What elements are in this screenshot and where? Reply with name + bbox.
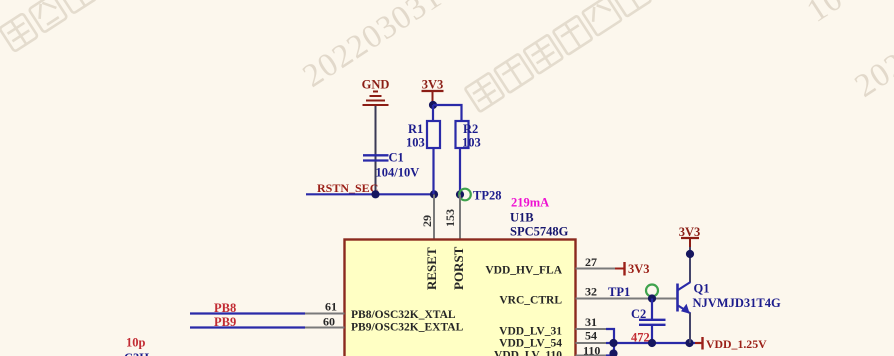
ground (363, 92, 389, 106)
svg-text:3V3: 3V3 (628, 262, 650, 276)
svg-text:Q1: Q1 (694, 282, 710, 296)
wire (432, 105, 434, 121)
svg-text:104/10V: 104/10V (376, 166, 420, 180)
power port 3V3 (422, 78, 444, 106)
pin 61 wire (190, 312, 345, 314)
svg-text:RSTN_SEC: RSTN_SEC (317, 181, 378, 195)
svg-text:TP28: TP28 (473, 189, 501, 203)
resistor R2 (456, 121, 469, 148)
svg-text:PB9: PB9 (214, 315, 236, 329)
node junction (648, 339, 656, 347)
pin 54 wire (576, 342, 615, 344)
node junction (686, 250, 694, 258)
capacitor C2 (639, 299, 666, 344)
wire (375, 106, 377, 194)
svg-text:60: 60 (323, 315, 335, 329)
power port 3V3 on pin 27 (625, 262, 650, 276)
R1 labels (406, 122, 425, 150)
test point TP1 (646, 285, 658, 297)
svg-text:C1: C1 (389, 151, 404, 165)
svg-text:153: 153 (443, 209, 457, 227)
power port 3V3 top right (679, 225, 701, 247)
svg-text:VDD_LV_31: VDD_LV_31 (499, 326, 562, 338)
node junction (430, 190, 438, 198)
wire (432, 148, 434, 194)
svg-text:PB8: PB8 (214, 301, 236, 315)
wire (306, 193, 434, 195)
svg-text:VDD_LV_54: VDD_LV_54 (499, 338, 562, 350)
svg-text:2022030318:10: 2022030318:10 (297, 0, 501, 95)
svg-text:VDD_LV_110: VDD_LV_110 (494, 350, 562, 356)
svg-text:10: 10 (801, 0, 850, 30)
svg-text:103: 103 (406, 136, 425, 150)
pin 60 wire (190, 326, 345, 328)
wire (689, 247, 691, 282)
pin PORST wire (459, 195, 461, 240)
svg-text:31: 31 (585, 315, 597, 329)
svg-text:27: 27 (585, 255, 597, 269)
svg-text:TP1: TP1 (608, 285, 630, 299)
svg-text:32: 32 (585, 285, 597, 299)
transistor Q1 (678, 282, 691, 343)
svg-text:61: 61 (325, 300, 337, 314)
capacitor C1 (363, 155, 389, 160)
svg-text:C2: C2 (631, 307, 646, 321)
power port VDD_1.25V (703, 337, 768, 351)
svg-text:SPC5748G: SPC5748G (510, 225, 569, 239)
svg-text:3V3: 3V3 (422, 78, 444, 92)
Q1 labels (693, 282, 781, 311)
node junction (609, 349, 617, 356)
node junction (648, 294, 656, 302)
test point TP28 (459, 189, 471, 201)
svg-text:C3H: C3H (124, 351, 149, 356)
resistor R1 (427, 121, 440, 148)
svg-text:PB9/OSC32K_EXTAL: PB9/OSC32K_EXTAL (351, 322, 464, 334)
node junction (456, 190, 464, 198)
svg-text:NJVMJD31T4G: NJVMJD31T4G (693, 296, 781, 310)
wire (459, 148, 461, 194)
svg-text:GND: GND (362, 78, 390, 92)
pin 27 wire (576, 268, 625, 270)
pin 32 wire (576, 298, 678, 300)
node junction (609, 339, 617, 347)
svg-text:54: 54 (585, 329, 597, 343)
svg-text:219mA: 219mA (511, 196, 549, 210)
svg-text:2022: 2022 (849, 36, 894, 104)
svg-text:110: 110 (583, 344, 600, 356)
svg-text:U1B: U1B (510, 211, 534, 225)
svg-text:VRC_CTRL: VRC_CTRL (499, 295, 562, 307)
svg-text:RESET: RESET (424, 247, 439, 290)
svg-text:29: 29 (420, 215, 434, 227)
VDD_LV bus wire (614, 342, 695, 344)
R2 labels (462, 122, 481, 150)
svg-text:10p: 10p (126, 336, 146, 350)
pin 110 wire (576, 343, 615, 356)
node junction (371, 190, 379, 198)
wire (433, 105, 462, 121)
pin 31 wire (576, 329, 615, 343)
svg-text:VDD_HV_FLA: VDD_HV_FLA (485, 265, 562, 277)
svg-text:R1: R1 (408, 122, 423, 136)
watermarks (decorative) (0, 0, 651, 112)
svg-text:VDD_1.25V: VDD_1.25V (706, 337, 767, 351)
svg-text:PORST: PORST (451, 246, 466, 290)
pin RESET wire (433, 195, 435, 240)
svg-text:R2: R2 (463, 122, 478, 136)
C1 value labels (376, 151, 420, 180)
svg-text:PB8/OSC32K_XTAL: PB8/OSC32K_XTAL (351, 309, 456, 321)
node junction (429, 101, 437, 109)
svg-text:103: 103 (462, 136, 481, 150)
node junction (685, 339, 693, 347)
IC U1B body (345, 240, 576, 356)
